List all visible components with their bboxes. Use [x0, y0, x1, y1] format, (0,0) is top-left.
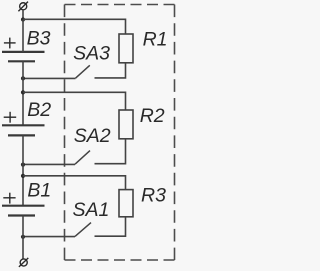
switch SA1 blade: [75, 223, 91, 237]
wire terminal to node: [22, 10, 24, 20]
switch SA3 blade: [76, 65, 90, 78]
dashed enclosure box: [65, 5, 175, 261]
battery B2: [2, 125, 45, 135]
svg-text:R2: R2: [140, 105, 165, 127]
switch SA2 blade: [75, 151, 90, 165]
wire row3 top to R3: [23, 176, 126, 190]
resistor R3: [119, 190, 133, 217]
node junction top: [21, 17, 25, 21]
wire bus to SA3: [23, 77, 76, 79]
wire R1 bottom to SA3 contact: [95, 63, 126, 78]
resistor R2: [119, 110, 133, 139]
battery B3: [2, 52, 45, 61]
wire R3 bottom to SA1 contact: [95, 217, 126, 236]
svg-text:SA2: SA2: [74, 125, 111, 147]
wire R2 bottom to SA2 contact: [95, 139, 126, 164]
node SA3: [21, 76, 25, 80]
wire bus B2: [22, 135, 24, 205]
svg-text:SA3: SA3: [73, 43, 110, 65]
plus sign B1: [3, 193, 15, 204]
wire bus to SA2: [23, 163, 75, 165]
plus sign B3: [4, 38, 16, 49]
svg-text:SA1: SA1: [73, 199, 110, 221]
node SA1: [21, 235, 25, 239]
battery B1: [2, 206, 45, 216]
node row2 top: [21, 90, 25, 94]
resistor R1: [119, 34, 133, 63]
node SA2: [21, 163, 25, 167]
wire bus to SA1: [23, 236, 75, 238]
svg-text:B1: B1: [27, 180, 51, 202]
wire bus B3: [22, 20, 24, 52]
plus sign B2: [4, 112, 17, 123]
node row3 top: [21, 174, 25, 178]
wire row1 top to R1: [23, 19, 126, 34]
wire bus B1 to terminal: [22, 216, 24, 260]
terminal X2 (bottom): [19, 258, 28, 267]
svg-text:R1: R1: [143, 29, 168, 51]
terminal X1 (top): [18, 2, 28, 12]
wire row2 top to R2: [23, 92, 126, 110]
svg-text:B3: B3: [27, 27, 51, 49]
svg-text:R3: R3: [141, 185, 166, 207]
svg-text:B2: B2: [27, 99, 51, 121]
